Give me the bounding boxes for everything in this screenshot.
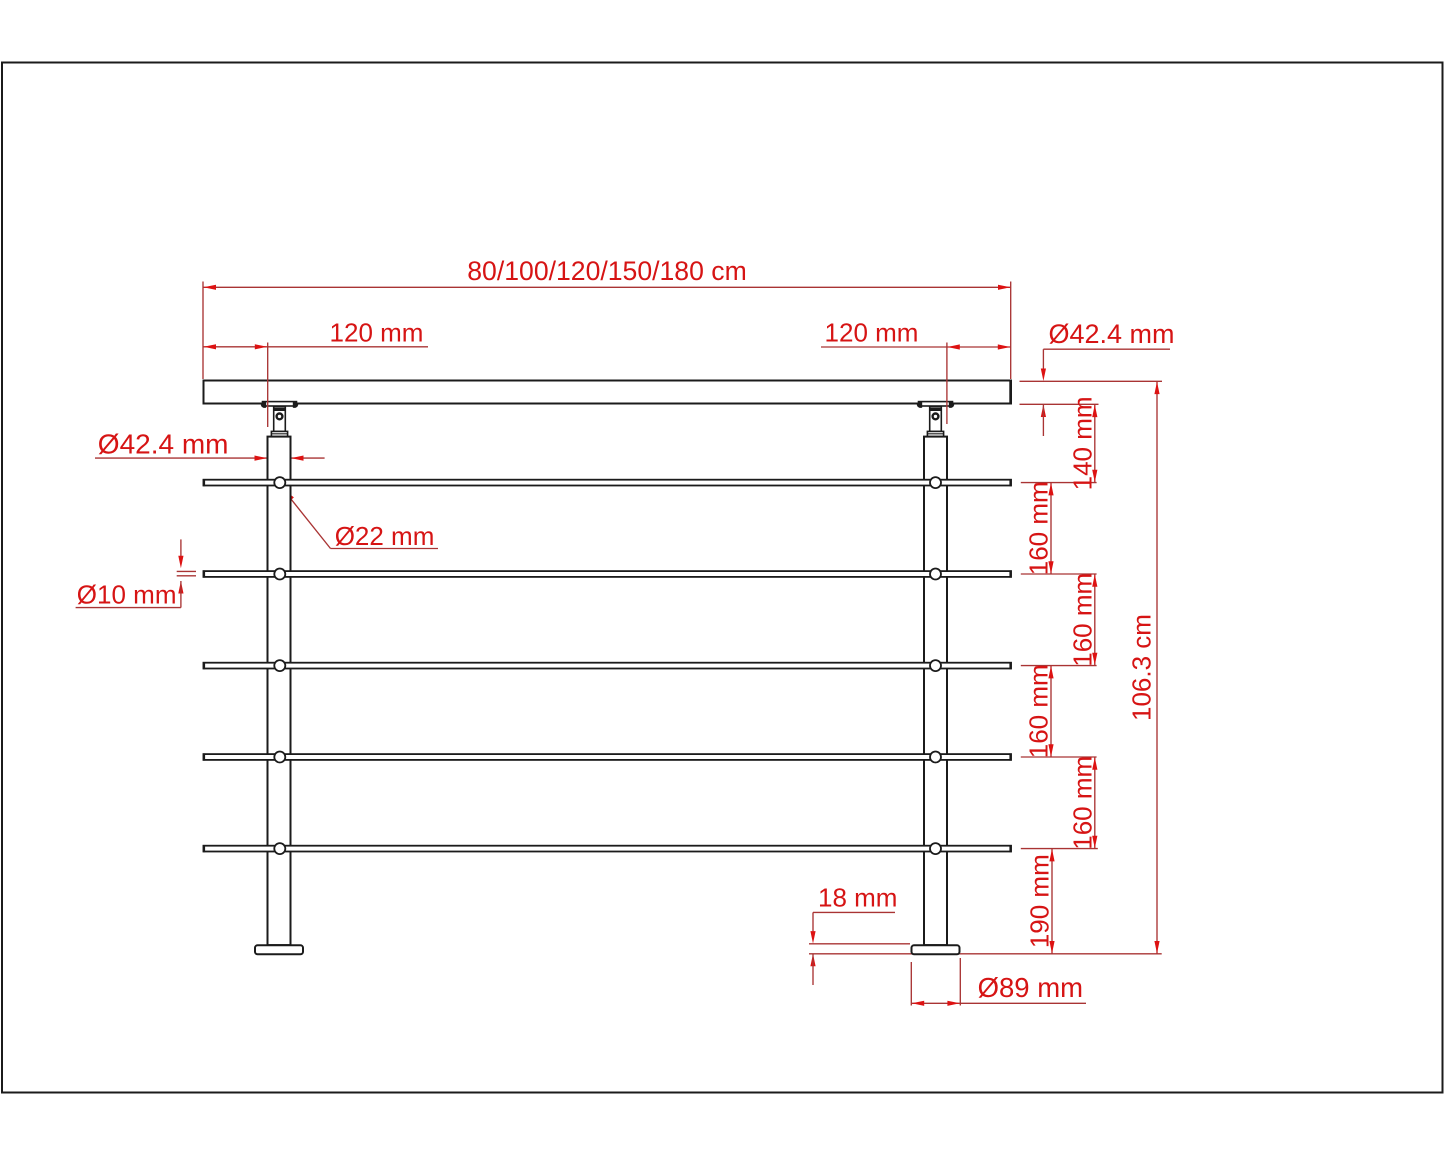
- ball connector bar1 right post: [930, 477, 941, 488]
- svg-text:160 mm: 160 mm: [1024, 481, 1054, 575]
- ball connector bar4 right post: [930, 752, 941, 763]
- svg-text:Ø10 mm: Ø10 mm: [77, 579, 177, 609]
- extension line: base plate top (left of plate): [809, 943, 910, 945]
- crossbar 3: [204, 662, 1012, 669]
- left post saddle fitting: [261, 402, 298, 437]
- crossbar 2: [204, 570, 1012, 577]
- svg-text:80/100/120/150/180 cm: 80/100/120/150/180 cm: [467, 256, 746, 286]
- ball connector bar5 right post: [930, 843, 941, 854]
- dimension: handrail diameter 42.4 mm (right): [1041, 319, 1175, 436]
- right post saddle fitting: [917, 402, 954, 437]
- crossbar 5: [204, 845, 1012, 852]
- dimension: 190 mm bar5 to ground: [1025, 849, 1055, 954]
- dimension: 160 mm bar3-bar4: [1024, 664, 1054, 758]
- ball connector bar3 right post: [930, 660, 941, 671]
- extension line: handrail top (right side): [1020, 380, 1163, 382]
- left base plate: [255, 945, 303, 954]
- svg-text:106.3 cm: 106.3 cm: [1127, 614, 1157, 721]
- dimension: ball diameter 22 mm leader: [283, 489, 438, 551]
- crossbar 4: [204, 753, 1012, 760]
- ball connector bar4 left post: [274, 752, 285, 763]
- crossbar 1: [204, 479, 1012, 486]
- dimension: base plate diameter 89 mm: [911, 958, 1086, 1006]
- extension line: crossbar 4 (right side): [1021, 756, 1097, 758]
- ball connector bar3 left post: [274, 660, 285, 671]
- left post tube: [268, 437, 291, 945]
- ball connector bar2 right post: [930, 569, 941, 580]
- extension line: handrail bottom (right side): [1020, 403, 1099, 405]
- extension line: right post axis (over rail): [946, 343, 948, 425]
- dimension: left 120 mm post inset: [203, 318, 428, 350]
- svg-text:Ø89 mm: Ø89 mm: [978, 972, 1083, 1003]
- svg-text:160 mm: 160 mm: [1068, 573, 1098, 667]
- extension line: crossbar 5 (right side): [1021, 848, 1098, 850]
- handrail right end cap: [1009, 380, 1011, 404]
- right post tube: [924, 437, 947, 945]
- dimension: 140 mm rail to first bar: [1068, 396, 1098, 490]
- extension line: crossbar 3 (right side): [1021, 665, 1097, 667]
- right base plate: [912, 945, 960, 954]
- dimension: base plate thickness 18 mm: [810, 882, 897, 985]
- dimension: overall height 106.3 cm: [1127, 381, 1160, 954]
- svg-text:18 mm: 18 mm: [818, 882, 897, 912]
- svg-text:Ø42.4 mm: Ø42.4 mm: [98, 429, 229, 460]
- extension line: base plate bottom (right side): [809, 953, 1162, 955]
- handrail tube: [204, 381, 1012, 404]
- svg-text:160 mm: 160 mm: [1024, 664, 1054, 758]
- svg-text:190 mm: 190 mm: [1025, 854, 1055, 948]
- extension line: crossbar 2 (right side): [1021, 573, 1097, 575]
- dimension: 160 mm bar4-bar5: [1068, 756, 1098, 850]
- ball connector bar2 left post: [274, 569, 285, 580]
- dimension: overall length 80/100/120/150/180 cm: [203, 256, 1011, 379]
- svg-text:140 mm: 140 mm: [1068, 396, 1098, 490]
- dimension: post diameter 42.4 mm (left): [95, 429, 325, 461]
- svg-text:160 mm: 160 mm: [1068, 756, 1098, 850]
- extension line: left post axis (over rail): [267, 343, 269, 428]
- svg-text:120 mm: 120 mm: [330, 318, 424, 348]
- svg-text:120 mm: 120 mm: [825, 318, 919, 348]
- svg-text:Ø22 mm: Ø22 mm: [335, 521, 435, 551]
- dimension: right 120 mm post inset: [821, 318, 1011, 350]
- extension line: crossbar 1 (right side): [1021, 482, 1097, 484]
- dimension: 160 mm bar2-bar3: [1068, 573, 1098, 667]
- svg-text:Ø42.4 mm: Ø42.4 mm: [1049, 319, 1175, 349]
- ball connector bar1 left post: [274, 477, 285, 488]
- dimension: crossbar diameter 10 mm: [76, 539, 196, 609]
- ball connector bar5 left post: [274, 843, 285, 854]
- dimension: 160 mm bar1-bar2: [1024, 481, 1054, 575]
